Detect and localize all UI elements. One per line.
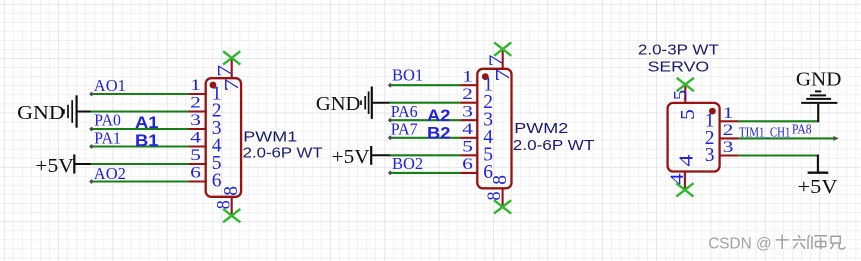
svg-text:7: 7 [492, 69, 514, 82]
svg-text:3: 3 [462, 103, 473, 120]
wire riser to +5V3 [817, 155, 819, 172]
svg-text:PA8: PA8 [792, 123, 812, 138]
wire end marker PWM2 pin 6 [388, 171, 393, 176]
netflag arrow PA8 [833, 136, 838, 141]
no-connect X on PWM1 pin 7 [223, 51, 240, 64]
svg-text:1: 1 [723, 105, 734, 122]
svg-text:AO1: AO1 [94, 76, 126, 95]
PWM1 pin 7 lead (top) [231, 58, 233, 78]
wire end marker PWM2 pin 3 [388, 118, 393, 123]
PWM1 pin 8 lead (bottom) [231, 197, 233, 216]
PWM2 pin 4 lead [460, 137, 478, 139]
PWM1 pin 1 lead [188, 93, 207, 95]
PWM2 pin 3 lead [460, 119, 478, 121]
svg-text:+5V: +5V [35, 155, 74, 177]
svg-text:2: 2 [190, 95, 201, 112]
wire to PWM1 pin 3 [91, 128, 189, 130]
svg-text:AO2: AO2 [94, 164, 126, 183]
PWM2 pin 2 lead [460, 102, 478, 104]
svg-text:1: 1 [190, 77, 201, 94]
wire to PWM2 pin 4 [389, 137, 460, 139]
PWM2 pin 6 lead [460, 172, 478, 174]
wire to PWM1 pin 1 [91, 93, 189, 95]
svg-text:5: 5 [190, 147, 201, 164]
svg-text:TIM1_CH1: TIM1_CH1 [739, 124, 791, 139]
svg-text:4: 4 [190, 130, 201, 147]
wire SERVO pin2 (TIM1_CH1) [739, 137, 836, 139]
svg-text:8: 8 [221, 186, 242, 196]
svg-text:3: 3 [723, 139, 734, 156]
svg-text:7: 7 [214, 65, 235, 77]
svg-text:B1: B1 [135, 132, 159, 150]
connector PWM1 body [206, 78, 241, 197]
wire SERVO pin3 to +5V [739, 154, 818, 156]
SERVO pin-1 dot [709, 108, 716, 115]
svg-text:2: 2 [723, 122, 734, 139]
wire end marker PWM2 pin 4 [388, 135, 393, 140]
svg-text:A1: A1 [135, 114, 159, 132]
svg-text:6: 6 [190, 165, 201, 182]
svg-text:3: 3 [705, 145, 715, 166]
svg-text:8: 8 [490, 175, 511, 185]
svg-text:5: 5 [678, 109, 699, 120]
PWM2 pin-1 dot [482, 73, 489, 80]
wire end marker pin 3 [89, 127, 94, 132]
svg-text:GND: GND [316, 93, 361, 115]
wire GND to PWM2 pin 2 [389, 102, 461, 104]
svg-text:PWM2: PWM2 [514, 121, 568, 137]
ground symbol GND3 [815, 90, 821, 92]
SERVO pin 1 lead [720, 120, 739, 122]
wire end marker pin 1 [89, 92, 94, 97]
PWM2 pin 8 lead (bottom) [502, 188, 504, 207]
wire SERVO pin1 to GND [739, 120, 819, 122]
SERVO pin 2 lead [720, 137, 739, 139]
svg-text:1: 1 [462, 68, 473, 85]
svg-text:3: 3 [190, 112, 201, 129]
PWM2 pin 7 lead (top) [502, 49, 504, 69]
PWM1 pin 5 lead [188, 163, 207, 165]
connector SERVO body [668, 103, 720, 172]
svg-text:5: 5 [670, 90, 691, 101]
no-connect X on PWM2 pin 7 [494, 42, 511, 55]
svg-text:GND: GND [17, 102, 64, 124]
svg-text:PA0: PA0 [94, 111, 121, 130]
SERVO pin 4 lead (bottom) [684, 172, 686, 190]
PWM2 pin 5 lead [460, 154, 478, 156]
svg-text:BO1: BO1 [392, 65, 423, 84]
svg-text:2.0-6P WT: 2.0-6P WT [243, 146, 323, 162]
wire to PWM2 pin 3 [389, 119, 460, 121]
wire riser to GND3 [817, 104, 819, 122]
wire to PWM2 pin 6 [389, 172, 460, 174]
svg-text:PWM1: PWM1 [243, 130, 297, 146]
wire end marker PWM2 pin 1 [388, 83, 393, 88]
wire end marker pin 4 [89, 144, 94, 149]
svg-text:PA1: PA1 [94, 128, 121, 147]
connector PWM2 body [477, 69, 511, 189]
svg-text:SERVO: SERVO [648, 60, 710, 76]
PWM1 pin-1 dot [210, 82, 217, 89]
wire GND to PWM1 pin 2 [90, 110, 189, 112]
watermark CSDN @十六师兄 [708, 235, 846, 254]
wire to PWM1 pin 6 [91, 180, 189, 182]
SERVO pin 3 lead [720, 154, 739, 156]
svg-text:+5V: +5V [332, 146, 371, 168]
svg-text:CSDN @: CSDN @ [708, 235, 772, 252]
wire to PWM1 pin 4 [91, 145, 189, 147]
no-connect X on PWM1 pin 8 [223, 209, 240, 222]
no-connect X on PWM2 pin 8 [494, 200, 511, 213]
svg-text:2.0-6P WT: 2.0-6P WT [513, 138, 595, 154]
wire end marker pin 6 [89, 179, 94, 184]
svg-text:7: 7 [486, 54, 507, 66]
svg-text:PA6: PA6 [391, 102, 418, 121]
svg-text:8: 8 [485, 191, 505, 200]
wire +5V to PWM1 pin 5 [91, 163, 189, 165]
no-connect X on SERVO pin 5 [677, 78, 694, 91]
svg-text:PA7: PA7 [391, 120, 418, 139]
svg-text:BO2: BO2 [392, 154, 423, 173]
wire +5V to PWM2 pin 5 [390, 154, 461, 156]
svg-text:2: 2 [462, 86, 473, 103]
SERVO pin 5 lead (top) [684, 85, 686, 103]
svg-text:B2: B2 [427, 124, 451, 142]
svg-text:4: 4 [675, 154, 697, 166]
svg-text:4: 4 [462, 121, 473, 138]
no-connect X on SERVO pin 4 [676, 183, 693, 196]
wire to PWM2 pin 1 [389, 84, 460, 86]
power symbol +5V (PWM1 pin5) [73, 154, 75, 173]
PWM1 pin 6 lead [188, 180, 207, 182]
PWM1 pin 3 lead [188, 128, 207, 130]
ground symbol GND1 [64, 95, 91, 127]
ground symbol GND2 [372, 102, 390, 104]
PWM1 pin 4 lead [188, 145, 207, 147]
svg-text:6: 6 [462, 156, 473, 173]
svg-text:+5V: +5V [798, 176, 839, 198]
svg-text:2.0-3P WT: 2.0-3P WT [638, 42, 719, 58]
svg-text:5: 5 [462, 138, 473, 155]
PWM2 pin 1 lead [460, 84, 478, 86]
svg-text:7: 7 [221, 79, 243, 92]
power symbol +5V (SERVO pin3) [808, 171, 829, 173]
svg-text:8: 8 [214, 200, 234, 209]
power symbol +5V (PWM2 pin5) [370, 146, 372, 165]
svg-text:A2: A2 [427, 107, 451, 125]
PWM1 pin 2 lead [188, 110, 207, 112]
svg-text:GND: GND [796, 68, 842, 90]
